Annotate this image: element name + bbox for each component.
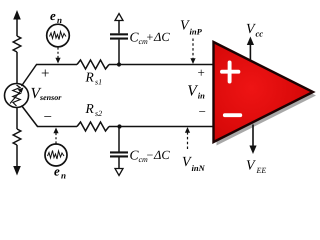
wire from Rs1 through node to amplifier + input (109, 64, 214, 66)
svg-text:s1: s1 (95, 78, 102, 87)
svg-text:V: V (246, 159, 256, 174)
label Vin (differential input) (187, 83, 205, 101)
svg-text:−: − (147, 148, 154, 162)
svg-text:V: V (187, 83, 198, 100)
resistor (lower bridge resistor on left rail) (13, 129, 21, 145)
dashed arrow VinP down to + input wire (190, 39, 195, 65)
op-amp shadow (217, 46, 317, 146)
svg-text:EE: EE (256, 166, 267, 175)
svg-text:inP: inP (190, 27, 203, 37)
svg-text:V: V (180, 19, 190, 34)
shield arrow down (open arrowhead below bottom capacitor) (115, 169, 123, 176)
svg-text:sensor: sensor (39, 93, 62, 102)
resistor Rs2 (77, 122, 109, 131)
bridge excitation arrow up (top of left rail) (13, 10, 21, 36)
capacitor Ccm-dC (bottom) (110, 127, 128, 169)
dashed arrow from bottom en to wire (53, 128, 58, 144)
wire from Rs2 through node to amplifier - input (109, 126, 214, 128)
label Ccm+dC (130, 30, 171, 47)
wire diagonal from sensor to + node (22, 65, 37, 87)
noise source en (top) (47, 24, 70, 47)
svg-text:+: + (198, 65, 205, 80)
svg-text:R: R (85, 70, 95, 85)
label VEE (246, 159, 266, 176)
node junction (top) (117, 62, 121, 66)
wire rail from sensor to lower resistor (16, 108, 18, 130)
capacitor Ccm+dC (top) (110, 20, 128, 65)
shield arrow up (open arrowhead above top capacitor) (115, 14, 123, 21)
wire diagonal from sensor to - node (22, 106, 38, 127)
bridge return arrow down (bottom of left rail) (13, 145, 21, 176)
wire rail from upper resistor to sensor (16, 52, 18, 84)
svg-text:−: − (199, 104, 206, 119)
dashed arrow from top en to wire (55, 48, 60, 64)
svg-text:n: n (57, 15, 62, 25)
svg-text:+: + (147, 30, 154, 44)
svg-text:e: e (50, 8, 56, 23)
label Vcc (246, 22, 263, 39)
label + (non-inverting marker inside amplifier) (222, 63, 238, 82)
sensor Vsensor (variable resistor in circle) (5, 84, 29, 108)
svg-text:e: e (54, 164, 60, 179)
node junction (bottom) (117, 124, 121, 128)
svg-text:in: in (198, 91, 205, 101)
VEE supply arrow down (249, 125, 256, 155)
svg-text:V: V (182, 155, 192, 170)
svg-text:n: n (61, 171, 66, 181)
resistor Rs1 (77, 60, 109, 69)
svg-text:+: + (41, 66, 49, 82)
svg-text:R: R (85, 101, 95, 116)
svg-text:ΔC: ΔC (153, 30, 170, 44)
label Ccm-dC (130, 148, 171, 165)
dashed arrow VinN up to - input wire (185, 127, 190, 149)
wire top lead to Rs1 (36, 64, 77, 66)
svg-text:s2: s2 (95, 109, 102, 118)
svg-text:ΔC: ΔC (153, 148, 170, 162)
label VinP (180, 19, 203, 37)
svg-text:V: V (246, 22, 256, 37)
label VinN (182, 155, 206, 173)
resistor (upper bridge resistor on left rail) (13, 36, 21, 52)
svg-text:inN: inN (192, 163, 206, 173)
svg-text:cc: cc (256, 29, 264, 39)
Vcc supply arrow up (247, 37, 254, 61)
label - (inverting marker inside amplifier) (225, 113, 241, 117)
svg-text:−: − (44, 110, 52, 126)
noise source en (bottom) (45, 144, 67, 166)
op-amp (instrumentation amplifier triangle) (214, 42, 314, 142)
wire bottom lead to Rs2 (37, 126, 77, 128)
